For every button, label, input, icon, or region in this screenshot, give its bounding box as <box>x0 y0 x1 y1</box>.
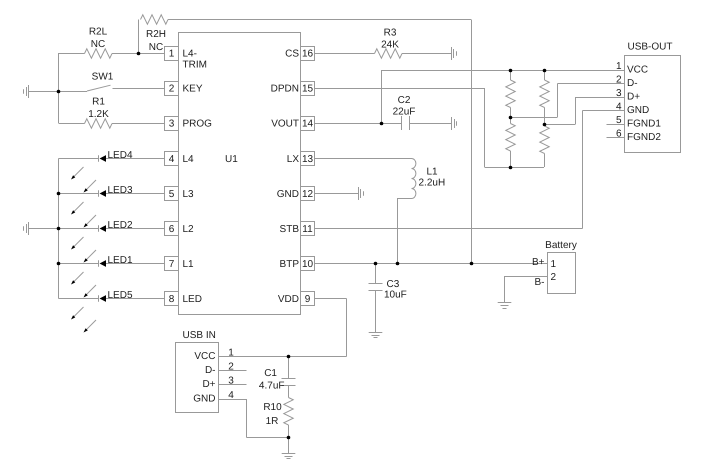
svg-text:VOUT: VOUT <box>271 119 299 130</box>
svg-text:LED3: LED3 <box>108 185 133 196</box>
svg-text:GND: GND <box>627 105 649 116</box>
svg-text:2: 2 <box>169 84 175 95</box>
svg-text:3: 3 <box>616 88 622 99</box>
svg-text:1: 1 <box>228 348 234 359</box>
svg-text:10uF: 10uF <box>384 290 407 301</box>
svg-text:L1: L1 <box>183 259 195 270</box>
svg-text:L1: L1 <box>427 167 439 178</box>
svg-text:VDD: VDD <box>278 294 299 305</box>
svg-text:C1: C1 <box>264 368 277 379</box>
svg-text:3: 3 <box>169 119 175 130</box>
svg-text:LX: LX <box>287 154 300 165</box>
svg-text:2: 2 <box>228 362 234 373</box>
svg-text:KEY: KEY <box>183 84 203 95</box>
svg-text:USB IN: USB IN <box>183 330 216 341</box>
svg-text:NC: NC <box>91 39 105 50</box>
svg-text:16: 16 <box>302 49 314 60</box>
svg-text:L4: L4 <box>183 154 195 165</box>
svg-text:11: 11 <box>302 224 313 235</box>
svg-text:7: 7 <box>169 259 175 270</box>
svg-text:5: 5 <box>169 189 175 200</box>
svg-text:1: 1 <box>169 49 175 60</box>
svg-text:VCC: VCC <box>627 65 648 76</box>
svg-text:D-: D- <box>627 78 638 89</box>
svg-text:L2: L2 <box>183 224 195 235</box>
svg-text:13: 13 <box>302 154 314 165</box>
svg-text:L4-: L4- <box>183 49 197 60</box>
svg-text:2: 2 <box>616 75 622 86</box>
svg-text:GND: GND <box>277 189 299 200</box>
svg-text:FGND1: FGND1 <box>627 119 661 130</box>
svg-text:1.2K: 1.2K <box>88 109 109 120</box>
svg-text:R1: R1 <box>92 97 105 108</box>
svg-text:LED1: LED1 <box>108 255 133 266</box>
svg-text:14: 14 <box>302 119 314 130</box>
svg-text:FGND2: FGND2 <box>627 132 661 143</box>
svg-text:NC: NC <box>149 42 163 53</box>
svg-text:6: 6 <box>616 129 622 140</box>
svg-text:D+: D+ <box>202 379 215 390</box>
svg-text:1R: 1R <box>266 416 279 427</box>
svg-text:10: 10 <box>302 259 314 270</box>
svg-text:1: 1 <box>616 61 622 72</box>
svg-text:LED4: LED4 <box>108 150 133 161</box>
svg-text:R3: R3 <box>384 28 397 39</box>
svg-text:LED: LED <box>183 294 202 305</box>
svg-text:L3: L3 <box>183 189 195 200</box>
svg-text:2: 2 <box>551 272 557 283</box>
svg-text:GND: GND <box>193 394 215 405</box>
svg-text:22uF: 22uF <box>393 107 416 118</box>
svg-text:Battery: Battery <box>545 240 577 251</box>
svg-text:C2: C2 <box>398 95 411 106</box>
svg-text:D-: D- <box>205 365 216 376</box>
svg-text:CS: CS <box>285 49 299 60</box>
svg-text:4.7uF: 4.7uF <box>259 381 285 392</box>
svg-text:R2H: R2H <box>146 29 166 40</box>
svg-text:R10: R10 <box>263 402 282 413</box>
svg-text:15: 15 <box>302 84 314 95</box>
svg-text:9: 9 <box>305 294 311 305</box>
svg-text:B+: B+ <box>532 257 545 268</box>
svg-text:6: 6 <box>169 224 175 235</box>
svg-text:LED2: LED2 <box>108 220 133 231</box>
svg-text:4: 4 <box>228 390 234 401</box>
svg-text:3: 3 <box>228 376 234 387</box>
svg-text:24K: 24K <box>381 40 399 51</box>
svg-text:4: 4 <box>616 102 622 113</box>
svg-text:B-: B- <box>535 277 545 288</box>
svg-text:DPDN: DPDN <box>271 84 299 95</box>
svg-text:USB-OUT: USB-OUT <box>628 42 673 53</box>
svg-text:1: 1 <box>551 259 557 270</box>
svg-text:4: 4 <box>169 154 175 165</box>
svg-text:8: 8 <box>169 294 175 305</box>
svg-text:PROG: PROG <box>183 119 213 130</box>
svg-text:SW1: SW1 <box>92 72 114 83</box>
svg-text:C3: C3 <box>387 279 400 290</box>
svg-text:5: 5 <box>616 115 622 126</box>
svg-text:STB: STB <box>280 224 300 235</box>
svg-text:12: 12 <box>302 189 314 200</box>
svg-text:2.2uH: 2.2uH <box>419 178 446 189</box>
svg-text:D+: D+ <box>627 92 640 103</box>
svg-text:R2L: R2L <box>89 27 108 38</box>
svg-text:LED5: LED5 <box>108 290 133 301</box>
svg-text:U1: U1 <box>225 154 238 165</box>
svg-text:VCC: VCC <box>194 351 215 362</box>
svg-text:BTP: BTP <box>280 259 300 270</box>
svg-text:TRIM: TRIM <box>183 60 207 71</box>
